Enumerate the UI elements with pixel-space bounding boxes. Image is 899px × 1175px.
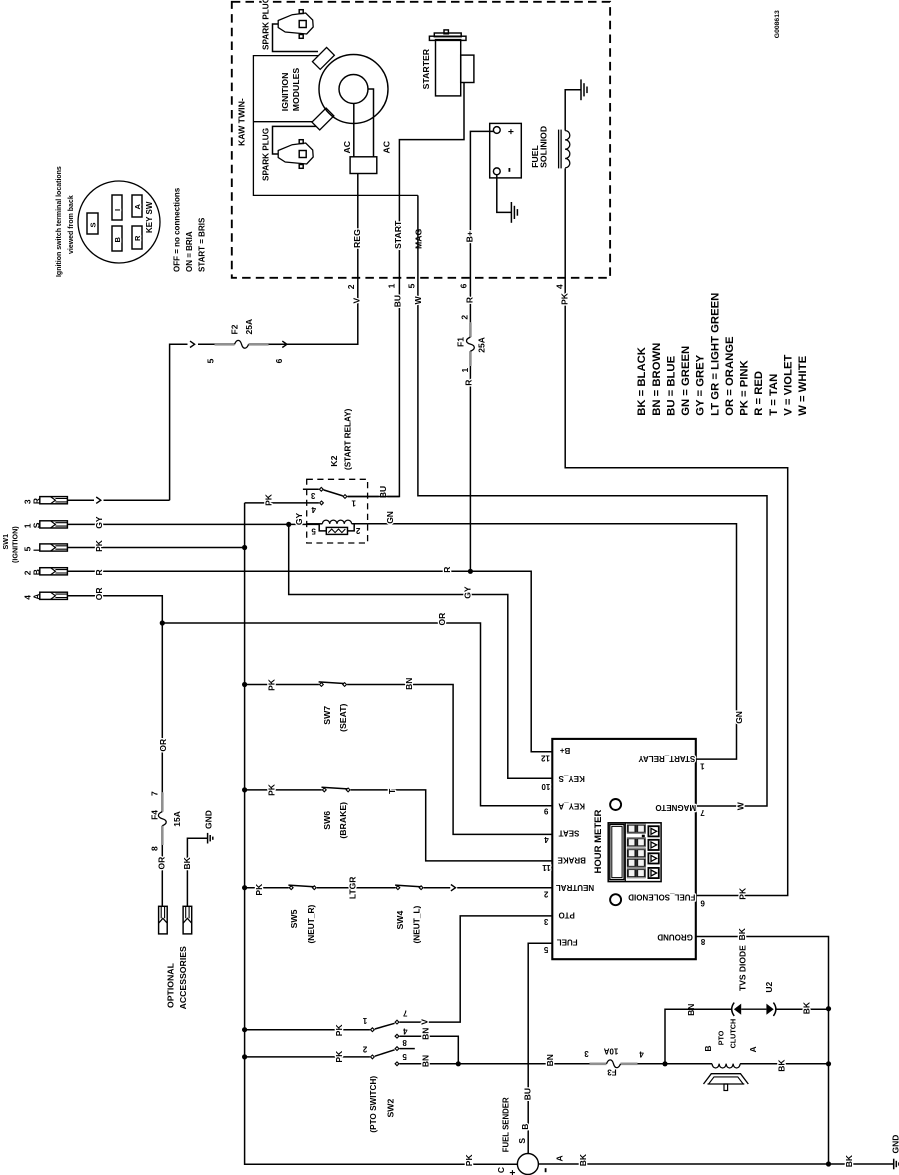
key switch terminal S [87, 213, 98, 234]
svg-text:BN = BROWN: BN = BROWN [651, 343, 663, 416]
label START [393, 220, 403, 249]
relay K2 pin number 2 [355, 526, 360, 535]
svg-text:W: W [736, 801, 746, 810]
wire BN SW2 pin5 to fuse F3 [400, 1063, 590, 1065]
label HOUR METER [593, 810, 604, 874]
TVS diode U2 [732, 1003, 776, 1016]
wire T SW6 to hour meter BRAKE [351, 790, 553, 861]
fuse F4 15A [149, 791, 182, 851]
svg-text:PK: PK [94, 539, 104, 552]
SW2 pin number 4 [403, 1026, 408, 1035]
svg-text:FUEL: FUEL [557, 937, 578, 946]
svg-text:PK: PK [267, 678, 277, 691]
SW2 pin number 2 [362, 1045, 367, 1054]
svg-text:A: A [554, 1155, 564, 1161]
label A (clutch) [748, 1046, 758, 1052]
svg-text:PK: PK [334, 1050, 344, 1063]
svg-text:OR: OR [157, 857, 167, 870]
svg-text:B+: B+ [559, 746, 570, 755]
connector SW1 pin 2 (B) [22, 568, 67, 576]
svg-text:BK: BK [737, 927, 747, 940]
svg-text:PK: PK [254, 883, 264, 896]
label BU (START wire) [393, 295, 403, 307]
fuse F1 25A [455, 315, 486, 373]
junction SW5 feed [242, 885, 247, 890]
svg-text:(PTO SWITCH): (PTO SWITCH) [369, 1076, 378, 1133]
svg-text:R = RED: R = RED [753, 371, 765, 416]
svg-text:OR: OR [158, 739, 168, 752]
svg-text:MAGNETO: MAGNETO [655, 803, 696, 812]
label PK (SW5) [254, 883, 264, 896]
wire LTGR SW5 to SW4 [317, 887, 396, 889]
label V (REG wire) [352, 298, 362, 304]
SW2 pin number 8 [402, 1038, 407, 1047]
svg-text:8: 8 [402, 1038, 407, 1047]
junction clutch/BK [826, 1061, 831, 1066]
label PTO CLUTCH [717, 1019, 738, 1049]
svg-text:F4: F4 [150, 810, 160, 820]
fuel solenoid coil [559, 130, 570, 169]
svg-text:BN: BN [420, 1055, 430, 1067]
label OR (below F4) [157, 857, 167, 870]
svg-text:1: 1 [700, 762, 705, 771]
label GY (SW1) [94, 516, 104, 529]
label KAW TWIN- [237, 98, 247, 146]
svg-text:STARTER: STARTER [421, 48, 431, 89]
svg-text:BK: BK [182, 856, 192, 869]
connector chevron (V wire right of F2) [282, 341, 287, 347]
svg-text:MODULES: MODULES [291, 68, 301, 112]
svg-text:A: A [133, 204, 142, 210]
svg-text:PK: PK [738, 887, 748, 900]
relay K2 switch blade [324, 490, 343, 496]
label pin 6 (B+) [459, 283, 469, 288]
relay K2 dashed box [307, 479, 368, 543]
svg-text:LTGR: LTGR [348, 877, 358, 900]
svg-text:5: 5 [311, 526, 316, 535]
svg-text:AC: AC [342, 140, 352, 153]
relay K2 coil [307, 520, 368, 524]
label C (sender) [496, 1167, 506, 1173]
label T (SW6) [387, 788, 397, 794]
svg-text:AC: AC [381, 140, 391, 153]
drawing number G008613 [774, 10, 781, 38]
svg-text:6: 6 [459, 283, 469, 288]
ground (battery) [511, 202, 517, 223]
label PK (at hour meter) [738, 887, 748, 900]
junction SW6 feed [242, 787, 247, 792]
ignition module 2 [312, 108, 334, 130]
label R (below F1) [464, 380, 474, 386]
label pin 4 (solenoid) [555, 284, 565, 289]
svg-text:+: + [508, 1170, 519, 1175]
svg-text:R: R [464, 380, 474, 386]
label FUEL SENDER [501, 1097, 510, 1152]
svg-text:F3: F3 [607, 1068, 617, 1077]
relay K2 pin number 5 [311, 526, 316, 535]
label GY (at K2) [294, 512, 304, 525]
svg-text:GY = GREY: GY = GREY [695, 354, 707, 415]
svg-text:4: 4 [544, 835, 549, 844]
svg-text:25A: 25A [476, 337, 486, 353]
svg-text:(NEUT_L): (NEUT_L) [412, 905, 422, 943]
switch SW2 pole 2 [371, 1047, 399, 1059]
svg-text:4: 4 [639, 1050, 644, 1059]
svg-text:SOLINIOD: SOLINIOD [539, 126, 549, 168]
svg-text:8: 8 [150, 846, 160, 851]
svg-text:(SEAT): (SEAT) [338, 703, 348, 731]
svg-text:2: 2 [346, 284, 356, 289]
label BN (at clutch) [686, 1004, 696, 1016]
svg-text:B: B [113, 237, 122, 243]
hour meter LCD display [608, 823, 661, 882]
svg-text:GY: GY [294, 512, 304, 525]
svg-text:FUEL_SOLENOID: FUEL_SOLENOID [628, 892, 695, 901]
hour meter pin 3 label PTO [543, 911, 575, 926]
svg-text:BN: BN [545, 1054, 555, 1066]
svg-text:SW6: SW6 [322, 811, 332, 830]
hour meter pin 11 label BRAKE [542, 856, 586, 872]
junction OR [160, 620, 165, 625]
svg-text:C: C [496, 1167, 506, 1173]
svg-text:PK = PINK: PK = PINK [739, 359, 751, 415]
wire BK hour meter GROUND to bus [696, 937, 829, 1165]
label A (sender) [554, 1155, 564, 1161]
svg-text:(IGNITION): (IGNITION) [11, 526, 20, 563]
label REG [352, 229, 362, 248]
label - (sender) [545, 1168, 547, 1172]
svg-text:BN: BN [404, 678, 414, 690]
svg-text:4: 4 [311, 505, 316, 514]
hour meter mounting hole top [610, 799, 621, 810]
ignition switch terminal diagram title [56, 166, 75, 277]
wire V SW2 pin7 to hour meter PTO [400, 916, 553, 1022]
svg-text:5: 5 [206, 358, 216, 363]
svg-text:S: S [88, 222, 97, 227]
svg-text:+: + [506, 129, 517, 135]
svg-text:PTO: PTO [717, 1030, 726, 1045]
svg-text:GND: GND [204, 810, 214, 829]
svg-text:BK: BK [844, 1154, 854, 1167]
SW2 pin number 5 [402, 1052, 407, 1061]
battery [490, 123, 522, 177]
svg-text:A: A [748, 1046, 758, 1052]
svg-text:3: 3 [310, 491, 315, 500]
label OPTIONAL ACCESSORIES [166, 946, 188, 1009]
label BU (fuel wire) [523, 1088, 533, 1100]
svg-text:GY: GY [462, 586, 472, 599]
svg-text:9: 9 [543, 807, 548, 816]
junction SW2 pole1 feed [242, 1027, 247, 1032]
label GND (main) [891, 1135, 899, 1154]
wire fuel solenoid to ground [565, 90, 581, 131]
relay K2 pin number 4 [311, 505, 316, 514]
hour meter pin 5 label FUEL [543, 937, 577, 954]
label BK (clutch) [777, 1059, 787, 1072]
ground GND (main) [894, 1159, 899, 1170]
svg-text:PK: PK [267, 783, 277, 796]
label SW4 (NEUT_L) [395, 905, 422, 943]
label R (SW1) [94, 569, 104, 575]
svg-text:6: 6 [700, 898, 705, 907]
wire GY SW1 pin1 to relay K2 coil [67, 523, 319, 525]
label GND (accessory) [204, 810, 214, 829]
label R (B+ wire) [464, 297, 474, 303]
switch SW7 (SEAT) [319, 682, 347, 687]
svg-text:SW1: SW1 [1, 534, 10, 550]
svg-text:START = BRIS: START = BRIS [197, 217, 206, 272]
label GY (KEY_S wire) [462, 586, 472, 599]
svg-text:BU: BU [393, 295, 403, 307]
label IGNITION MODULES [280, 68, 301, 112]
label B (sender) [520, 1124, 530, 1130]
label SPARK PLUG (top) [262, 0, 271, 50]
svg-text:2: 2 [355, 526, 360, 535]
svg-text:SW7: SW7 [322, 706, 332, 725]
label PK (SW2 pole1) [334, 1024, 344, 1037]
wire BN SW2 pin4 down [400, 1036, 459, 1064]
key switch terminal I [112, 195, 122, 220]
ground (fuel solenoid) [581, 79, 587, 100]
switch SW5 (NEUT_R) [288, 885, 316, 890]
switch SW2 pole2 lower contact pin 5 [395, 1062, 399, 1066]
svg-text:10A: 10A [603, 1047, 618, 1056]
svg-text:SW4: SW4 [395, 911, 405, 930]
wire AC right [368, 89, 374, 157]
key switch terminal R [132, 226, 142, 249]
svg-text:15A: 15A [172, 811, 182, 827]
label PK (SW6) [267, 783, 277, 796]
svg-text:NEUTRAL: NEUTRAL [556, 883, 594, 892]
svg-text:SW2: SW2 [385, 1099, 395, 1118]
ground (accessory) [208, 833, 213, 844]
svg-text:1: 1 [460, 368, 470, 373]
svg-text:PK: PK [334, 1024, 344, 1037]
wire FUEL hour meter pin5 to sender [528, 943, 552, 1153]
SW2 pin 8 stub [400, 1048, 415, 1050]
wire BN F3 to PTO clutch [638, 1063, 713, 1065]
label KEY SW [145, 201, 154, 233]
relay K2 contact pin 1 [343, 495, 347, 499]
junction TVS/PTO left [662, 1061, 667, 1066]
svg-text:OPTIONAL: OPTIONAL [166, 962, 176, 1008]
SW2 pin number 7 [403, 1009, 408, 1018]
svg-text:HOUR METER: HOUR METER [593, 810, 604, 874]
wire AC left [353, 104, 355, 157]
wire TVS branch left [665, 1009, 732, 1064]
wire PK bus to SW7 [245, 684, 319, 686]
svg-text:5: 5 [402, 1052, 407, 1061]
label SW7 (SEAT) [322, 703, 348, 731]
svg-text:S: S [517, 1138, 527, 1144]
relay K2 pin 1 wire [348, 496, 400, 498]
svg-text:5: 5 [543, 945, 548, 954]
wire color legend [636, 293, 809, 416]
switch SW6 (BRAKE) [322, 787, 351, 792]
engine enclosure dashed box (KAW TWIN) [232, 2, 610, 278]
svg-text:START_RELAY: START_RELAY [638, 754, 696, 763]
svg-text:IGNITION: IGNITION [280, 73, 290, 112]
svg-text:4: 4 [555, 284, 565, 289]
label AC right [381, 140, 391, 153]
wire BK accessory to ground [187, 838, 207, 906]
svg-text:U2: U2 [764, 981, 774, 992]
svg-text:BU = BLUE: BU = BLUE [665, 355, 677, 415]
relay K2 pin number 1 [351, 499, 356, 508]
svg-text:R: R [464, 297, 474, 303]
label + (sender) [508, 1170, 519, 1175]
relay K2 contact pin 3 [319, 487, 323, 491]
junction R/B+ feed [468, 569, 473, 574]
wire bottom bus right to GND [829, 1163, 894, 1165]
svg-text:3: 3 [543, 917, 548, 926]
svg-text:W = WHITE: W = WHITE [797, 355, 809, 415]
accessory connector terminal (BK) [183, 906, 192, 934]
svg-text:F1: F1 [455, 337, 465, 347]
label SPARK PLUG (bottom) [262, 128, 271, 181]
label BN (before F3) [545, 1054, 555, 1066]
accessory connector terminal (OR) [159, 906, 168, 934]
svg-text:KEY_S: KEY_S [558, 774, 585, 783]
label OR (above F4) [158, 739, 168, 752]
svg-text:ON = BRIA: ON = BRIA [185, 231, 194, 272]
label BK (TVS) [801, 1001, 811, 1014]
label PK (solenoid wire) [560, 292, 570, 305]
key switch terminal A [132, 195, 142, 217]
relay K2 coil resistor [319, 524, 354, 535]
label R (near junction) [442, 567, 452, 573]
label PK (bottom bus) [464, 1154, 474, 1167]
wire MAG (W) engine to hour meter MAGNETO [418, 195, 767, 806]
label pin 5 (MAG) [407, 283, 417, 288]
svg-text:SEAT: SEAT [559, 829, 580, 838]
label STARTER [421, 48, 431, 89]
label K2 (START RELAY) [329, 408, 352, 470]
svg-text:Ignition switch terminal locat: Ignition switch terminal locations [56, 166, 63, 277]
wire spark plug 2 to ignition module [273, 126, 317, 154]
svg-text:FUEL SENDER: FUEL SENDER [501, 1097, 510, 1152]
hour meter pin 9 label KEY_A [543, 802, 585, 816]
rectifier box [350, 157, 377, 174]
svg-text:KEY SW: KEY SW [145, 201, 154, 233]
svg-text:GN = GREEN: GN = GREEN [680, 346, 692, 416]
connector SW1 pin 4 (A) [22, 592, 67, 600]
wire battery negative to ground [497, 175, 512, 213]
svg-text:1: 1 [351, 499, 356, 508]
svg-text:1: 1 [362, 1016, 367, 1025]
label GN (at hour meter) [734, 711, 744, 724]
svg-text:R: R [94, 569, 104, 575]
svg-text:K2: K2 [329, 455, 339, 466]
svg-text:BK: BK [801, 1001, 811, 1014]
svg-text:GN: GN [734, 711, 744, 724]
hour meter box [552, 739, 696, 959]
label B+ [465, 231, 475, 242]
svg-text:OFF = no connections: OFF = no connections [172, 187, 181, 272]
key switch position table [172, 187, 206, 272]
wire PK bus to SW2 pole1 [245, 1029, 370, 1031]
wire GN relay K2 to hour meter START_RELAY [368, 524, 737, 759]
svg-text:2: 2 [543, 890, 548, 899]
junction GY/KEY_S [286, 522, 291, 527]
ignition module 1 [312, 47, 334, 69]
wire PK bus to SW6 [245, 789, 322, 791]
svg-text:6: 6 [274, 358, 284, 363]
svg-text:2: 2 [460, 315, 470, 320]
label pin 1 (START) [387, 283, 397, 288]
hour meter pin 8 label GROUND [657, 932, 705, 946]
svg-text:TVS DIODE: TVS DIODE [737, 945, 747, 991]
wire OR to hour meter KEY_A [162, 623, 552, 806]
svg-text:PTO: PTO [559, 911, 575, 920]
svg-text:SW5: SW5 [289, 909, 299, 928]
relay K2 pin number 3 [310, 491, 315, 500]
wire PK bus to relay K2 pin 4 [245, 502, 319, 504]
svg-text:KAW TWIN-: KAW TWIN- [237, 98, 247, 146]
label BK (accessory) [182, 856, 192, 869]
connector SW1 pin 1 (S) [22, 521, 67, 529]
label W (at hour meter) [736, 801, 746, 810]
svg-text:4: 4 [403, 1026, 408, 1035]
label B (clutch) [703, 1045, 713, 1051]
engine block outline [253, 56, 418, 196]
PTO clutch coil [712, 1064, 740, 1068]
svg-text:(NEUT_R): (NEUT_R) [306, 905, 316, 944]
label OR (SW1) [94, 587, 104, 600]
label OR (KEY_A wire) [437, 613, 447, 626]
junction TVS/BK [826, 1006, 831, 1011]
label AC left [342, 140, 352, 153]
svg-text:ACCESSORIES: ACCESSORIES [178, 946, 188, 1009]
wire B+ (R) battery to junction [470, 131, 493, 571]
svg-text:8: 8 [700, 937, 705, 946]
wire SW4 to hour meter NEUTRAL [424, 887, 553, 889]
label PK (SW1) [94, 539, 104, 552]
svg-text:BK: BK [777, 1059, 787, 1072]
wire PK engine pin4 to hour meter FUEL_SOLENOID [565, 168, 788, 895]
wire BN SW7 to hour meter SEAT [347, 685, 552, 835]
svg-text:R: R [133, 235, 142, 241]
svg-text:BK = BLACK: BK = BLACK [636, 346, 648, 416]
svg-text:START: START [393, 220, 403, 249]
svg-text:12: 12 [541, 754, 550, 763]
label SW1 (IGNITION) [1, 526, 20, 563]
label U2 [764, 981, 774, 992]
key switch terminal B [112, 226, 122, 251]
label S (sender) [517, 1138, 527, 1144]
key switch body circle (KEY SW) [78, 181, 160, 263]
svg-text:(BRAKE): (BRAKE) [338, 802, 348, 839]
wire PK SW1 pin5 to PK bus [67, 547, 244, 549]
connector SW1 pin 3 (R) [22, 497, 67, 505]
svg-text:7: 7 [149, 791, 159, 796]
svg-text:SPARK PLUG: SPARK PLUG [262, 128, 271, 181]
svg-text:OR: OR [94, 587, 104, 600]
svg-text:T: T [387, 788, 397, 794]
hour meter pin 4 label SEAT [544, 829, 580, 844]
connector SW1 pin 5 (I) [22, 544, 67, 552]
label LTGR [348, 877, 358, 900]
wire PK bus to SW5 [245, 887, 289, 889]
svg-text:I: I [113, 209, 122, 211]
label SW6 (BRAKE) [322, 802, 348, 839]
label SW5 (NEUT_R) [289, 905, 316, 944]
label GN (at K2) [385, 511, 395, 524]
hour meter mounting hole bottom [610, 894, 621, 905]
wire START (BU) starter to relay K2 pin 1 [348, 83, 465, 497]
flywheel magneto circles [319, 55, 388, 124]
label W (MAG wire) [413, 295, 423, 304]
